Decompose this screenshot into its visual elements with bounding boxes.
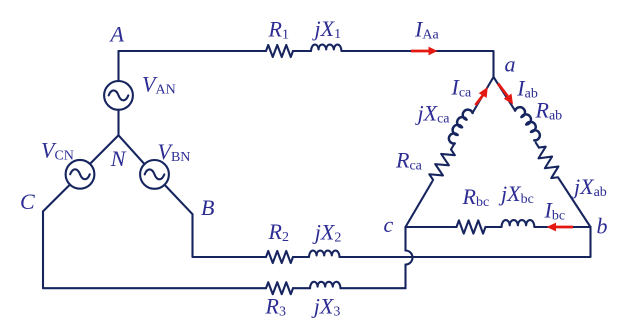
svg-text:Rca: Rca	[395, 147, 423, 173]
svg-text:Ica: Ica	[451, 74, 473, 100]
svg-text:jX2: jX2	[312, 219, 342, 245]
ac source VBN sine	[145, 169, 165, 179]
wire B down and right to R2	[193, 214, 267, 257]
svg-text:R3: R3	[265, 294, 286, 320]
svg-text:Rab: Rab	[535, 97, 563, 123]
svg-text:Rbc: Rbc	[462, 184, 490, 210]
wire hop over R2 line	[406, 251, 413, 265]
svg-text:jX1: jX1	[312, 16, 342, 42]
ac source VBN circle	[140, 160, 169, 189]
wire N to VCN diagonal	[90, 135, 118, 163]
wire Rca to node c	[406, 181, 433, 227]
resistor R3	[266, 282, 293, 294]
wire C down and right to R3	[43, 211, 266, 288]
svg-text:C: C	[20, 189, 35, 214]
ac source VCN circle	[66, 160, 95, 189]
wire Rbc to jXbc	[486, 226, 502, 228]
inductor jXbc	[502, 220, 535, 227]
wire jXab to node b	[558, 178, 590, 227]
resistor R2	[266, 251, 293, 263]
wire R1 to jX1	[293, 50, 311, 52]
wire hop to R3 line	[404, 265, 406, 289]
ac source VCN sine	[70, 169, 90, 179]
inductor Rab on delta right side	[515, 105, 543, 142]
wire N to VBN diagonal	[119, 135, 145, 164]
svg-text:VCN: VCN	[41, 138, 74, 164]
resistor jXab on delta right side	[534, 144, 564, 180]
wire node c to Rbc	[406, 226, 457, 228]
wire VAN to node N	[117, 110, 119, 136]
svg-text:a: a	[505, 52, 516, 77]
wire VCN to corner C	[43, 185, 70, 212]
inductor jX2	[309, 251, 340, 257]
resistor R1	[266, 45, 293, 57]
wire c down to hop	[404, 227, 406, 251]
wire delta side a to jXca	[473, 77, 494, 112]
svg-text:jXab: jXab	[571, 174, 607, 200]
wire A to R1 top line	[119, 50, 267, 52]
current arrow Ibc	[555, 226, 573, 229]
inductor jX3	[310, 282, 341, 288]
svg-text:b: b	[597, 213, 608, 238]
wire jX1 to corner, down to node a	[342, 51, 494, 77]
wire delta side a to Rab	[494, 77, 516, 111]
svg-text:N: N	[110, 146, 127, 171]
svg-text:VAN: VAN	[142, 72, 176, 98]
resistor Rca on delta left side	[428, 146, 457, 183]
svg-text:R1: R1	[268, 16, 289, 42]
svg-text:VBN: VBN	[158, 139, 191, 165]
wire R2 to jX2	[293, 256, 309, 258]
svg-text:c: c	[384, 212, 394, 237]
svg-text:jX3: jX3	[311, 294, 341, 320]
resistor Rbc	[457, 220, 486, 233]
wire A down to source VAN	[117, 51, 119, 81]
ac source VAN sine	[109, 90, 129, 100]
inductor jX1	[311, 45, 342, 51]
svg-text:IAa: IAa	[414, 17, 439, 43]
inductor jXca on delta left side	[446, 107, 473, 144]
ac source VAN circle	[104, 81, 133, 110]
wire between Rab and jXab	[536, 143, 539, 148]
wire VBN to corner B	[165, 185, 193, 214]
svg-text:jXca: jXca	[415, 101, 451, 127]
wire jXbc to node b	[534, 226, 590, 228]
current arrow Ica	[475, 96, 482, 106]
wire between jXca and Rca	[451, 143, 455, 149]
svg-text:Ibc: Ibc	[544, 198, 566, 224]
svg-text:B: B	[201, 195, 214, 220]
current arrow Iab	[498, 84, 508, 97]
svg-text:R2: R2	[268, 219, 289, 245]
svg-text:A: A	[109, 21, 125, 46]
wire jX3 to below node c	[341, 287, 406, 289]
svg-text:jXbc: jXbc	[498, 181, 534, 207]
wire jX2 to below node b, up to b	[340, 227, 591, 257]
current arrow IAa	[411, 50, 430, 53]
wire R3 to jX3	[293, 287, 310, 289]
